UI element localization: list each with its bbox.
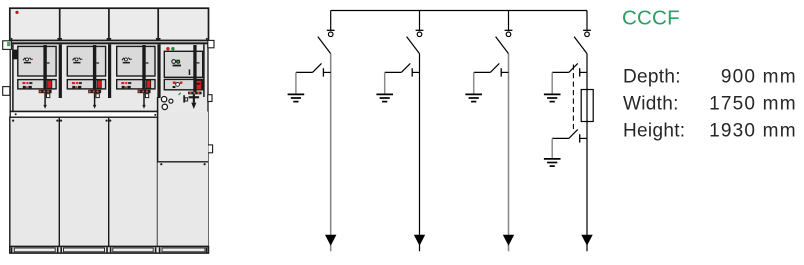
feeder 4 arrow bbox=[581, 235, 592, 246]
feeder 2 arrow bbox=[414, 235, 425, 246]
bay 1 cable indicator strip bbox=[39, 90, 52, 93]
earth switch 2 blade bbox=[401, 63, 410, 72]
feeder 3 arrow bbox=[503, 235, 514, 246]
earth switch 4b blade bbox=[569, 129, 578, 138]
label Depth bbox=[623, 66, 797, 87]
earth switch linkage (dashed) bbox=[572, 65, 574, 130]
earth switch 4b wire bbox=[552, 138, 569, 158]
feeder 4 drop wire bbox=[586, 11, 588, 31]
feeder 1 contact circle bbox=[328, 32, 333, 37]
feeder 3 line bbox=[508, 54, 510, 252]
black latch block left bbox=[12, 50, 18, 60]
ground 4 bbox=[544, 94, 561, 101]
label CCCF bbox=[622, 6, 680, 29]
mechanism front face bbox=[10, 44, 209, 246]
door latch right bbox=[208, 145, 213, 153]
ground 2 bbox=[376, 94, 393, 101]
feeder 4 fixed contact bar bbox=[583, 29, 591, 31]
feeder 1 fixed contact bar bbox=[327, 29, 335, 31]
bay divider 3 bbox=[157, 44, 160, 98]
earth switch 2 contact stub bbox=[412, 68, 419, 76]
bay 1 control sub-panel bbox=[18, 80, 56, 89]
earth switch 4 contact stub bbox=[580, 68, 587, 76]
earth switch 3 wire bbox=[474, 72, 491, 94]
bay 3 interlock window bbox=[145, 94, 148, 98]
feeder 1 line bbox=[330, 54, 332, 252]
bay 2 interlock window bbox=[96, 94, 99, 98]
bay 4 control sub-panel bbox=[164, 79, 202, 89]
earth switch 4 wire bbox=[552, 72, 569, 94]
bay 3 red operating handle bbox=[147, 80, 151, 88]
feeder 4 contact circle bbox=[585, 32, 590, 37]
bay 4 red fuse handle bbox=[195, 80, 201, 89]
interlock tab top-right bbox=[208, 40, 214, 47]
load-break switch 3 blade bbox=[496, 37, 509, 54]
bay 4 mimic panel bbox=[164, 51, 202, 77]
interlock tab mid-right bbox=[208, 95, 212, 102]
earth switch 1 wire bbox=[296, 72, 313, 94]
bay 2 operating shaft bbox=[93, 45, 99, 109]
bay 1 red operating handle bbox=[48, 80, 52, 88]
earth switch 2 wire bbox=[385, 72, 402, 94]
bay 3 control sub-panel bbox=[117, 80, 155, 89]
interlock tab mid-left bbox=[3, 87, 10, 96]
label Height bbox=[623, 121, 797, 142]
bay 4 lower door bbox=[158, 162, 208, 247]
door bolts bbox=[12, 113, 156, 122]
top rail bbox=[10, 42, 209, 44]
load-break switch 2 blade bbox=[407, 37, 420, 54]
load-break switch 1 blade bbox=[318, 37, 331, 54]
front sill bbox=[10, 111, 158, 117]
bay 2 control sub-panel bbox=[67, 80, 105, 89]
bay 4 indicator lamps bbox=[166, 47, 174, 50]
busbar panel bolts bbox=[11, 38, 208, 40]
svg-text:900 mm: 900 mm bbox=[721, 66, 797, 87]
plinth bbox=[10, 247, 209, 254]
bay 1 operating shaft bbox=[43, 45, 49, 109]
feeder 1 drop wire bbox=[330, 11, 332, 31]
ground 4b bbox=[544, 159, 561, 166]
earth switch 1 contact stub bbox=[323, 68, 330, 76]
red indicator lamp bbox=[15, 11, 18, 14]
bay 2 mimic panel bbox=[67, 46, 105, 76]
feeder 1 arrow bbox=[325, 235, 336, 246]
svg-text:CCCF: CCCF bbox=[622, 6, 680, 29]
label Width bbox=[623, 94, 797, 115]
busbar compartment panels bbox=[10, 8, 209, 40]
feeder 3 fixed contact bar bbox=[505, 29, 513, 31]
interlock tab top-left bbox=[3, 41, 12, 50]
earth switch 3 blade bbox=[490, 63, 499, 72]
feeder 2 contact circle bbox=[417, 32, 422, 37]
feeder 3 contact circle bbox=[506, 32, 511, 37]
bay 1 mimic diagram symbols bbox=[23, 58, 33, 64]
svg-text:1930 mm: 1930 mm bbox=[709, 121, 797, 142]
bay 4 door seam bbox=[158, 162, 208, 247]
bay 2 red operating handle bbox=[97, 80, 101, 88]
earth switch 4 blade bbox=[569, 63, 578, 72]
feeder 3 drop wire bbox=[508, 11, 510, 31]
bay 3 operating shaft bbox=[142, 45, 148, 109]
bay 4 upper door bbox=[158, 97, 208, 247]
bay 2 cable indicator strip bbox=[88, 90, 101, 93]
svg-text:Depth:: Depth: bbox=[623, 66, 681, 87]
earth switch 1 blade bbox=[313, 63, 322, 72]
bay divider 2 bbox=[108, 44, 111, 98]
feeder 2 fixed contact bar bbox=[416, 29, 424, 31]
feeder 4 line bbox=[586, 54, 588, 252]
svg-text:Height:: Height: bbox=[623, 121, 685, 142]
earth switch 3 contact stub bbox=[501, 68, 508, 76]
ground 1 bbox=[288, 94, 305, 101]
bay 1 interlock window bbox=[47, 94, 50, 98]
bay 4 padlock rings bbox=[161, 97, 172, 110]
svg-text:Width:: Width: bbox=[623, 94, 679, 115]
feeder 2 drop wire bbox=[419, 11, 421, 31]
load-break switch 4 blade bbox=[574, 37, 587, 54]
bay 4 lower mechanism bbox=[179, 93, 200, 109]
bay 4 operating shaft bbox=[189, 45, 200, 92]
fuse bbox=[581, 90, 593, 122]
bay 3 mimic diagram symbols bbox=[122, 58, 132, 64]
bay 3 cable indicator strip bbox=[138, 90, 151, 93]
bay 4 mimic diagram symbols bbox=[172, 60, 181, 67]
bay 2 mimic diagram symbols bbox=[73, 58, 83, 64]
bay 4 cable indicator strip bbox=[188, 92, 202, 95]
bay 3 mimic panel bbox=[117, 46, 155, 76]
svg-text:1750 mm: 1750 mm bbox=[709, 94, 797, 115]
bay divider 1 bbox=[59, 44, 62, 98]
ground 3 bbox=[465, 94, 482, 101]
cable compartment doors bays 1-3 bbox=[10, 117, 158, 246]
feeder 2 line bbox=[419, 54, 421, 252]
earth switch 4b contact stub bbox=[580, 134, 587, 142]
busbar wire bbox=[331, 10, 587, 12]
bay 1 mimic panel bbox=[18, 46, 56, 76]
